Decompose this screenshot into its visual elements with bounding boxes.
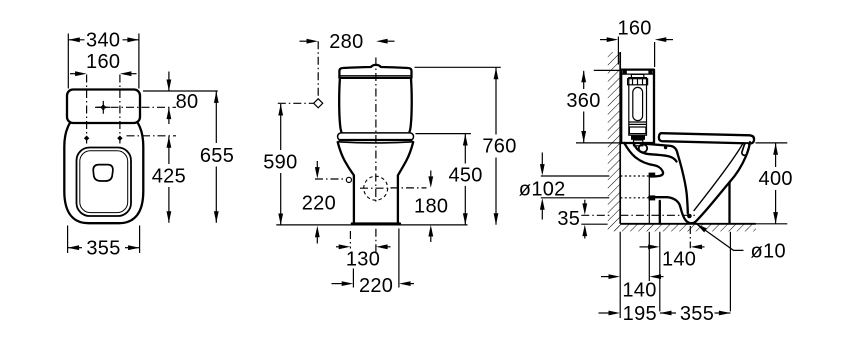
svg-text:220: 220 bbox=[359, 275, 393, 297]
bowl right edge (front) bbox=[398, 142, 413, 223]
dim 160 ext right bbox=[654, 42, 656, 67]
dim 355 (row C) bbox=[660, 303, 730, 325]
dim 655 bbox=[200, 91, 234, 222]
o102 line top (left of wall) bbox=[541, 175, 610, 177]
ext 355 right below floor bbox=[729, 232, 731, 312]
flush mechanism outer bbox=[629, 78, 647, 136]
svg-text:760: 760 bbox=[482, 136, 516, 158]
centerline below floor (front) bbox=[375, 229, 377, 254]
svg-text:425: 425 bbox=[152, 166, 186, 188]
dim 35 bbox=[557, 200, 587, 239]
svg-text:590: 590 bbox=[263, 151, 297, 173]
centerline 130 left below floor bbox=[349, 231, 351, 249]
lid seam bbox=[340, 75, 411, 77]
dim 760 top extension bbox=[415, 66, 501, 68]
dim 280 bbox=[300, 31, 395, 53]
ext wall face below floor bbox=[619, 232, 621, 318]
outlet stub front face bbox=[659, 201, 661, 224]
dim 340 bbox=[68, 30, 139, 52]
svg-text:130: 130 bbox=[346, 249, 380, 271]
inlet circle marker bbox=[346, 177, 351, 182]
lid bolt right bbox=[648, 70, 652, 74]
supply diamond bbox=[314, 99, 323, 108]
dim 425 bbox=[152, 136, 186, 223]
centre mark bbox=[97, 101, 111, 114]
bowl left edge (front) bbox=[338, 142, 354, 223]
seat lid blade bbox=[659, 133, 754, 143]
dim 355 extension right bbox=[139, 226, 141, 254]
centerline vertical right (160) bbox=[119, 75, 121, 144]
dim 760 bbox=[482, 68, 516, 225]
seat inner (plan) bbox=[80, 151, 128, 213]
svg-text:340: 340 bbox=[86, 30, 120, 52]
floor line (side) bbox=[620, 223, 756, 225]
centerline hinge row bbox=[127, 135, 177, 137]
water spot bbox=[93, 165, 113, 181]
inlet height centerline stub bbox=[315, 178, 347, 180]
spud circle bbox=[639, 144, 647, 152]
svg-text:160: 160 bbox=[86, 51, 120, 73]
svg-text:ø102: ø102 bbox=[519, 178, 566, 200]
o102 hidden line top bbox=[620, 175, 648, 177]
dim 80 bbox=[167, 72, 199, 125]
bowl underside sweep bbox=[695, 182, 730, 222]
dim 400 bbox=[759, 143, 793, 223]
dim 220 bottom bbox=[332, 275, 415, 297]
wall face line bbox=[619, 52, 621, 224]
o102 line bottom (left of wall) bbox=[541, 197, 610, 199]
mechanism lower bands bbox=[629, 122, 647, 146]
bowl back steep line bbox=[678, 154, 688, 214]
svg-text:180: 180 bbox=[414, 196, 448, 218]
supply centerline horizontal bbox=[278, 102, 314, 104]
outlet square mark bottom bbox=[649, 195, 656, 200]
svg-text:140: 140 bbox=[622, 280, 656, 302]
ext outlet back below floor bbox=[648, 232, 650, 281]
dim 160 bbox=[70, 51, 137, 76]
svg-text:80: 80 bbox=[176, 91, 199, 113]
svg-text:220: 220 bbox=[302, 192, 336, 214]
top extension line (cistern top) bbox=[143, 90, 218, 92]
lid bolt left bbox=[623, 70, 627, 74]
dim 450 extension top bbox=[416, 133, 471, 135]
dim 340 extension right bbox=[138, 34, 140, 89]
hinge hole left bbox=[84, 136, 89, 141]
pedestal bottom edge bbox=[352, 222, 400, 224]
bowl top edge (front) bbox=[338, 142, 414, 143]
svg-text:140: 140 bbox=[662, 249, 696, 271]
dim o102 bbox=[519, 153, 566, 220]
cistern body right side (front) bbox=[410, 79, 412, 133]
svg-text:360: 360 bbox=[566, 90, 600, 112]
drain crosshair vertical bbox=[375, 174, 377, 205]
svg-text:355: 355 bbox=[86, 238, 120, 260]
band bottom thick edge bbox=[339, 139, 413, 141]
mechanism actuator band bbox=[628, 79, 648, 85]
outlet hidden back line bbox=[648, 174, 650, 223]
dim 400 ext top bbox=[756, 142, 788, 144]
ext pedestal right below floor bbox=[398, 229, 400, 288]
svg-text:450: 450 bbox=[448, 165, 482, 187]
dim 355 bbox=[68, 238, 140, 260]
floor line (front) bbox=[276, 224, 467, 226]
svg-text:195: 195 bbox=[623, 303, 657, 325]
dim 130 bbox=[336, 244, 391, 270]
ext outlet front below floor bbox=[659, 232, 661, 312]
dim 340 extension left bbox=[67, 34, 69, 89]
seat back arm bbox=[646, 144, 678, 154]
dim 180 bbox=[414, 171, 448, 243]
floor extension to 400 dim bbox=[756, 223, 787, 225]
main centerline (front) bbox=[375, 58, 377, 171]
bowl rim back bbox=[651, 154, 677, 161]
seat outer (plan) bbox=[77, 148, 132, 217]
svg-text:35: 35 bbox=[557, 208, 580, 230]
floor hatching bbox=[614, 224, 757, 232]
seat arm nub bbox=[664, 146, 667, 149]
dim 140 upper (row A) bbox=[640, 245, 705, 271]
mechanism top cap bbox=[631, 74, 643, 77]
svg-text:355: 355 bbox=[680, 303, 714, 325]
flush elbow inner bbox=[633, 143, 651, 154]
svg-text:400: 400 bbox=[759, 168, 793, 190]
svg-text:ø10: ø10 bbox=[751, 240, 786, 262]
svg-text:160: 160 bbox=[617, 17, 651, 39]
centerline vertical left (160) bbox=[86, 75, 88, 144]
o102 hidden line bottom bbox=[620, 197, 648, 199]
drain point dot bbox=[687, 214, 692, 219]
dim 360 ext top bbox=[594, 69, 620, 71]
cistern box (side) bbox=[621, 70, 654, 143]
bowl front edge and foot bbox=[730, 142, 750, 223]
dim 160 (side) bbox=[600, 17, 673, 42]
ext pedestal left below floor bbox=[352, 269, 354, 288]
centerline horizontal through cistern bbox=[95, 106, 176, 108]
wall hatching bbox=[608, 52, 620, 231]
supply centerline vertical bbox=[317, 41, 319, 100]
drain crosshair horizontal bbox=[360, 187, 392, 189]
dim 360 bbox=[566, 71, 600, 143]
mechanism inner capsule bbox=[633, 87, 643, 120]
outlet height centerline stub (180) bbox=[391, 187, 427, 189]
dim 590 bbox=[263, 104, 297, 225]
dim 360 ext bottom bbox=[576, 142, 620, 144]
dim 355 extension left bbox=[67, 226, 69, 254]
trap outline bbox=[649, 197, 695, 223]
dim 160 ext left bbox=[617, 37, 619, 65]
hinge hole right bbox=[117, 136, 122, 141]
outlet centerline (35) bbox=[581, 214, 609, 216]
bowl outline (plan) bbox=[64, 123, 143, 223]
svg-text:280: 280 bbox=[329, 31, 363, 53]
centerline drain below floor bbox=[689, 226, 691, 248]
flush elbow outer + inlet beak bbox=[624, 143, 663, 176]
o10 leader bbox=[696, 224, 743, 251]
dim 195 (row C) bbox=[599, 303, 657, 325]
cistern (plan) bbox=[67, 90, 140, 124]
drain circle (hidden) bbox=[364, 176, 388, 200]
cistern lid seam (side) bbox=[621, 73, 654, 75]
cistern body left side (front) bbox=[339, 79, 341, 133]
outlet square mark top bbox=[649, 173, 656, 178]
svg-text:655: 655 bbox=[200, 145, 234, 167]
dim 220 left (height) bbox=[302, 161, 336, 244]
dim 450 bbox=[448, 134, 482, 225]
seat hinge band (front) bbox=[338, 133, 414, 140]
dim 140 lower (row B) bbox=[601, 274, 664, 301]
lid front bumper bbox=[741, 142, 750, 156]
inner bowl diagonal bbox=[694, 142, 744, 211]
floor stub left of wall bbox=[581, 223, 607, 225]
cistern lid (front) bbox=[339, 65, 411, 78]
